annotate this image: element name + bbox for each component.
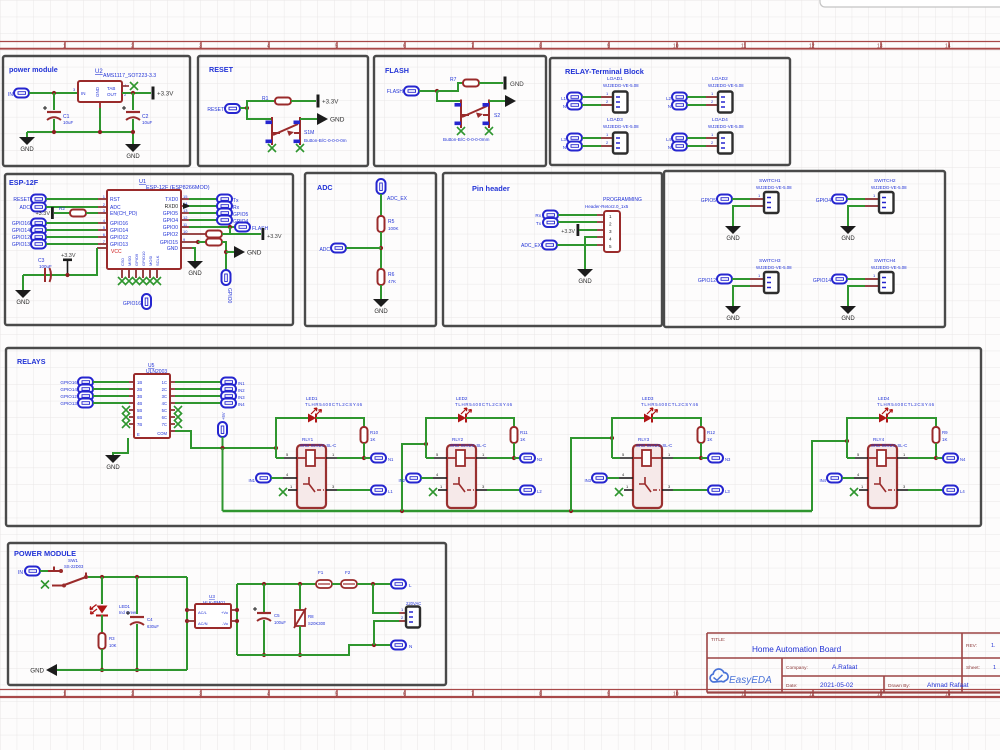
wire feed from bus [571,438,612,511]
wire GPIO14 [46,229,98,231]
wire R4 right and down [222,242,226,270]
svg-text:RELAY-Terminal Block: RELAY-Terminal Block [565,67,645,76]
svg-text:GPIO10: GPIO10 [141,251,146,266]
wire switch to GND flag [300,118,317,120]
wire coil right to node [673,457,701,459]
wire L tap down to block pin1 [373,584,399,613]
svg-text:-Vo: -Vo [222,621,229,626]
svg-text:EN(CH_PD): EN(CH_PD) [110,211,138,217]
ground symbol [840,306,856,322]
svg-text:LOAD3: LOAD3 [607,117,623,123]
ground symbol [725,226,741,242]
IC left pin names [110,197,138,248]
wire VCC down and left [23,248,97,275]
wire R3 to +3.3V [222,233,261,235]
screw terminal block SW block [764,192,779,213]
ground symbol under right [187,261,203,277]
svg-text:MOSI: MOSI [148,256,153,266]
svg-text:L2: L2 [666,96,671,101]
relay unit 4 [812,396,966,511]
no-connect flags bottom pads [118,277,126,285]
wire GND pin down [192,248,195,261]
svg-text:ADC_EX: ADC_EX [521,243,542,249]
capacitor C3 [45,268,51,282]
svg-text:R6: R6 [388,272,395,278]
svg-text:2C: 2C [162,387,167,392]
junction coil node [699,456,703,460]
wire N to block [582,145,601,147]
relay contact [639,477,660,492]
bottom ruler numbers [63,692,951,698]
wire down to C5 [263,584,265,612]
relay coil [633,450,662,466]
svg-text:GPIO14: GPIO14 [12,228,30,234]
wire 3C to port [175,395,221,397]
svg-text:GPIO5: GPIO5 [163,211,179,217]
wire R7 to GND bar [479,82,503,84]
svg-text:OUT: OUT [107,92,117,97]
wire LED to R3 [101,615,103,633]
no-connect flag bottom-left pin [457,127,465,135]
svg-text:LED1: LED1 [119,604,131,609]
svg-text:WJ2EDG-VE-5.08: WJ2EDG-VE-5.08 [603,124,639,129]
svg-text:N4: N4 [960,457,966,462]
resistor R3 GPIO0 pullup [206,231,222,238]
svg-text:N2: N2 [537,457,543,462]
no-connect flag bottom-right pin [485,127,493,135]
wire R1 to +3.3V [291,100,316,102]
wire up to resistor R1 [247,101,275,108]
net flag +3.3V [317,95,340,108]
no-connect flag NC pin [438,489,447,491]
svg-text:12: 12 [809,44,815,50]
svg-text:1B: 1B [137,380,142,385]
wire GPIO14 to 2B [93,388,129,390]
svg-text:IN1: IN1 [248,478,255,483]
svg-text:FLASH: FLASH [385,66,409,75]
screw terminal block 220VAC [406,607,420,628]
wire resistor to EN pin [86,212,98,214]
svg-text:5C: 5C [162,408,167,413]
svg-text:IN3: IN3 [238,395,245,400]
svg-text:630uF: 630uF [147,624,159,629]
junction R8 top [298,582,302,586]
svg-text:Pin header: Pin header [472,184,510,193]
relay unit 3 [571,396,731,511]
svg-text:IN3: IN3 [584,478,591,483]
svg-text:GPIO0: GPIO0 [163,225,179,231]
svg-text:N: N [668,145,671,150]
svg-text:TLHR5400CTL2CSY46: TLHR5400CTL2CSY46 [305,402,363,407]
wire node to port [936,457,943,459]
svg-text:+3.3V: +3.3V [35,211,50,217]
svg-text:1.: 1. [991,643,996,649]
screw terminal block CN3 [613,133,628,154]
svg-text:9: 9 [607,44,610,50]
terminal unit LOAD4 [666,117,744,154]
IC inner pin names right [157,380,167,436]
fuse F1 [316,580,332,588]
ground symbol right [125,144,141,160]
svg-text:6: 6 [403,692,406,698]
relay RLY4 body [868,445,897,508]
screw terminal block SW block [879,272,894,293]
wire NO pin to port [897,489,908,491]
junction reg gnd-rail [98,130,102,134]
svg-text:4C: 4C [162,401,167,406]
ground flag right [317,113,345,125]
wire tap down to pullup rail [229,227,231,234]
title block frame lines [707,633,1000,693]
LED D4 [879,408,893,423]
screw terminal block SW block [879,192,894,213]
svg-text:L1: L1 [388,489,393,494]
IC right pin numbers [183,194,188,242]
svg-text:L4: L4 [666,137,671,142]
pushbutton S2 [461,100,489,129]
svg-text:TAB: TAB [107,86,115,91]
capacitor C5 [253,607,271,621]
wire GPIO16 [46,222,98,224]
svg-text:10: 10 [673,44,679,50]
svg-text:PROGRAMMING: PROGRAMMING [603,197,642,203]
svg-text:R3: R3 [109,636,115,641]
screw terminal block CN1 [613,92,628,113]
junction coil node [934,456,938,460]
svg-text:1K: 1K [942,437,947,442]
no-connect flag NC pin [859,489,868,491]
svg-text:U1: U1 [139,179,146,185]
junction +3.3V tap [65,273,69,277]
wire block pin2 to gnd [750,285,764,287]
svg-text:S20K300: S20K300 [308,621,326,626]
port +5V vertical [218,422,227,437]
svg-text:R11: R11 [520,430,528,435]
IC left pin numbers [103,194,106,244]
junction U3 out bottom [235,619,239,623]
svg-text:L3: L3 [725,489,730,494]
node junction [435,89,439,93]
svg-text:1K: 1K [707,437,712,442]
ground flag right (no text) [505,95,516,107]
wire R8 to bottom rail [299,626,301,655]
svg-text:2021-05-02: 2021-05-02 [820,682,854,689]
svg-text:GPIO12: GPIO12 [698,278,716,284]
svg-text:RXD0: RXD0 [165,204,179,210]
wire coil pin left [612,457,620,459]
junction feed [424,442,428,446]
wire to resistor R7 [437,83,463,91]
section box: RELAY-Terminal Block [550,58,790,165]
svg-text:GPIO16: GPIO16 [110,221,128,227]
svg-text:5B: 5B [137,408,142,413]
varistor R8 [294,608,306,628]
svg-text:GPIO5: GPIO5 [233,212,249,218]
wire N to block [582,104,601,106]
resistor R4 pulldown [206,239,222,246]
section box: Pin header [443,173,662,326]
svg-text:1: 1 [609,214,612,219]
section box: POWER MODULE [8,543,446,685]
no-connect flag bottom-right pin [296,144,304,152]
svg-text:TLHR5400CTL2CSY46: TLHR5400CTL2CSY46 [877,402,935,407]
wire node to port [364,457,371,459]
screw terminal block SW block [764,272,779,293]
net flag GND bar [504,77,507,90]
svg-text:3B: 3B [137,394,142,399]
port IN2 out [221,385,236,394]
no-connect flags outputs 5C 6C 7C [174,406,182,414]
svg-text:GPIO0: GPIO0 [226,288,232,304]
svg-text:+3.3V: +3.3V [561,229,575,235]
relay RLY3 body [633,445,662,508]
junction R3 gnd [100,668,104,672]
GPIO2 pin stub [181,233,206,235]
junction C5 top [262,582,266,586]
junction U3 out top [235,608,239,612]
wire port to junction [240,107,247,109]
svg-text:TITLE:: TITLE: [711,637,725,643]
svg-text:E: E [137,432,140,437]
svg-text:GPIO5: GPIO5 [701,198,717,204]
junction LED branch [100,575,104,579]
wire C5 to bottom rail [263,620,265,655]
terminal unit LOAD2 [666,76,744,113]
svg-text:+Vo: +Vo [221,610,229,615]
svg-text:7C: 7C [162,422,167,427]
svg-text:L3: L3 [561,137,566,142]
svg-text:1K: 1K [370,437,375,442]
wire GPIO16 to 1B [93,381,129,383]
svg-text:Rx: Rx [535,213,541,218]
LED D2 [458,408,472,423]
svg-text:SCLK: SCLK [155,255,160,266]
junction U3 in top [185,608,189,612]
svg-text:LED4: LED4 [878,396,890,401]
wire TXD0 to Tx [189,198,217,200]
wire coil pin left [847,457,855,459]
wire coil pin left [426,457,434,459]
wire node to port [701,457,708,459]
wire GPIO4 [189,219,217,221]
svg-text:GPIO16: GPIO16 [60,380,77,385]
svg-text:ADC_EX: ADC_EX [387,196,408,202]
header pin numbers [609,214,612,249]
wire port to rail [222,437,224,448]
svg-text:GND: GND [510,81,524,88]
svg-text:2B: 2B [137,387,142,392]
svg-text:A.Rafaat: A.Rafaat [832,664,857,671]
wire resistor to coil node [700,443,702,458]
wire down to C1 [53,93,55,110]
junction L tap [371,582,375,586]
svg-text:IN: IN [81,91,86,96]
IC output pin stubs 1C-4C [170,382,175,403]
wire COM to +5V rail [175,431,276,448]
svg-text:R12: R12 [707,430,716,435]
svg-text:SRD-05VDC-SL-C: SRD-05VDC-SL-C [871,443,907,448]
svg-text:FLASH: FLASH [387,89,404,95]
junction divider node [379,246,383,250]
ground symbol ULN [105,455,121,471]
IC U5 ULN2003 body [134,374,170,438]
wire GPIO13 [46,243,98,245]
svg-text:7: 7 [471,692,474,698]
svg-text:4B: 4B [137,401,142,406]
wire block pin2 to gnd [750,205,764,207]
section box: FLASH [374,56,546,166]
svg-text:WJ2EDG-VE-5.08: WJ2EDG-VE-5.08 [708,124,744,129]
sheet frame bottom ruler [0,690,1000,698]
resistor R12 [698,427,705,443]
svg-text:4: 4 [609,237,612,242]
no-connect flag lower throw [41,581,49,589]
svg-text:Drawn By:: Drawn By: [888,683,910,689]
svg-text:F2: F2 [345,570,351,575]
unused output pin stubs [170,410,175,424]
svg-text:GPIO14: GPIO14 [60,387,77,392]
svg-text:REV:: REV: [966,643,977,649]
section box: RELAYS [6,348,981,526]
wire coil pin left [276,457,284,459]
svg-text:R10: R10 [370,430,379,435]
svg-text:LOAD2: LOAD2 [712,76,728,82]
junction left rail [274,446,278,450]
gnd rail wire [57,669,187,671]
port Rx [217,202,232,211]
wire switch to rail [88,576,187,578]
wire C2 to gnd [132,119,134,144]
port L [391,580,406,589]
LED D3 [644,408,658,423]
wire regulator GND pin down [99,102,101,132]
relay coil [297,450,326,466]
svg-text:COM: COM [157,431,167,436]
DC rail left vertical [236,584,238,655]
ground symbol pin header [577,269,593,285]
port N4 [943,454,958,463]
svg-text:LOAD4: LOAD4 [712,117,728,123]
no-connect flag bottom-left pin [268,144,276,152]
switch unit SWITCH3 [698,258,792,322]
wire coil right to node [487,457,514,459]
svg-text:+5V: +5V [221,412,226,420]
junction feed [845,439,849,443]
svg-text:AC/L: AC/L [198,610,208,615]
junction pullup tap on GPIO0 [228,225,232,229]
svg-text:TXD0: TXD0 [165,197,178,203]
wire RXD0 to Rx [189,205,217,207]
svg-text:IN1: IN1 [238,381,245,386]
svg-text:GPIO13: GPIO13 [110,242,128,248]
svg-text:L2: L2 [537,489,542,494]
switch unit SWITCH2 [816,178,907,242]
junction C1-rail [52,130,56,134]
wire pin4 to gnd [585,237,597,269]
svg-text:3: 3 [609,229,612,234]
svg-text:RESET: RESET [13,197,30,203]
svg-text:11: 11 [741,44,746,50]
junction C4 gnd [135,668,139,672]
relay contact [453,477,474,492]
right rail wire [186,577,188,670]
svg-text:IN: IN [8,92,13,98]
svg-text:GPIO9: GPIO9 [134,253,139,266]
header connector body [604,211,620,252]
svg-text:100uF: 100uF [274,620,286,625]
wire to left ground [26,132,28,137]
resistor R3 [99,633,106,649]
svg-text:LED3: LED3 [642,396,654,401]
junction coil node [512,456,516,460]
svg-text:POWER MODULE: POWER MODULE [14,549,76,558]
svg-text:1: 1 [63,692,66,698]
svg-text:3: 3 [199,692,202,698]
no-connect flags inputs 5B 6B 7B [122,406,130,414]
wire GPIO12 [46,236,98,238]
svg-text:Ahmad Rafaat: Ahmad Rafaat [927,682,969,689]
svg-text:+3.3V: +3.3V [61,253,76,259]
svg-text:N: N [563,104,566,109]
svg-text:RLY4: RLY4 [873,437,885,442]
LED1 indicator [97,606,108,614]
junction C2-rail [131,130,135,134]
svg-text:ADC: ADC [319,247,330,253]
svg-text:L4: L4 [960,489,965,494]
svg-text:100uF: 100uF [39,264,52,269]
wire IN to switch [40,570,52,572]
svg-text:GPIO12: GPIO12 [110,235,128,241]
svg-text:FLASH: FLASH [252,226,269,232]
svg-text:CS0: CS0 [120,257,125,266]
svg-text:1C: 1C [162,380,167,385]
resistor R10 [361,427,368,443]
ground flag left [30,664,57,676]
wire switch to gnd arrow [489,100,505,102]
svg-text:C5: C5 [274,613,280,618]
svg-text:RELAYS: RELAYS [17,357,46,366]
svg-text:R8: R8 [308,614,314,619]
node junction [245,106,249,110]
wire port to block pin1 [847,278,865,280]
junction R8 bottom [298,653,302,657]
regulator U2 body [78,81,122,102]
wire down to varistor R8 [299,584,301,610]
svg-text:GPIO13: GPIO13 [60,401,77,406]
svg-text:TLHR5400CTL2CSY46: TLHR5400CTL2CSY46 [455,402,513,407]
wire IN4 to relay [842,477,854,479]
relay coil [868,450,897,466]
junction feed [610,436,614,440]
wire coil right to node [337,457,364,459]
svg-text:RLY3: RLY3 [638,437,650,442]
ground symbol ESP left [15,290,31,306]
svg-text:C4: C4 [147,617,153,622]
wire Tx to pin2 [558,221,597,223]
junction N tap [372,643,376,647]
svg-text:SW1: SW1 [68,558,78,563]
fuse F2 [341,580,357,588]
svg-text:47K: 47K [388,279,396,284]
svg-text:GPIO4: GPIO4 [816,198,832,204]
GPIO0 pin stub [181,226,189,228]
svg-text:ESP-12F: ESP-12F [9,178,39,187]
svg-text:IN2: IN2 [238,388,245,393]
RXD0 direction arrow [183,203,191,209]
svg-text:8: 8 [539,692,542,698]
svg-text:GPIO4: GPIO4 [163,218,179,224]
ground flag right of R4 [234,246,262,258]
